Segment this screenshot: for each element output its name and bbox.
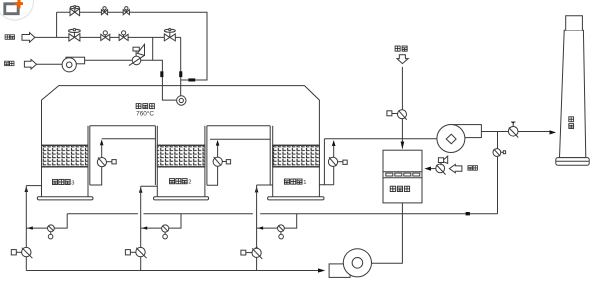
node arrow up tower1 outlet (332, 140, 336, 146)
label 空气 air right (468, 166, 478, 171)
wire stack line (481, 131, 549, 133)
node arrow left B2 (142, 226, 147, 229)
label 蓄热室2 (170, 179, 192, 186)
flange F2 vertical (179, 71, 182, 77)
wire gas drop to burner (180, 37, 182, 96)
ceramic bed tower1 (273, 145, 320, 167)
duct D1 top (90, 125, 156, 127)
label 过滤器 filter (390, 186, 409, 191)
valve V24 motor-operated before burner (164, 29, 175, 41)
wire gas main line 2 (35, 36, 181, 38)
label 废气 waste gas (395, 46, 407, 51)
label 燃气 gas (5, 35, 14, 40)
valve BV3 on branch B3 (278, 225, 285, 239)
wire bottom return line (26, 270, 318, 272)
node arrow up into tower2 (139, 187, 143, 193)
flange FA on manifold (466, 212, 470, 215)
svg-text:2: 2 (188, 180, 191, 186)
wire bypass drop to manifold (497, 132, 499, 214)
node arrow up into tower1 (255, 186, 259, 192)
damper valve DV3 tower1 right (328, 157, 347, 166)
wire riser R2 (140, 186, 142, 270)
node air inlet block arrow right (449, 164, 462, 172)
duct D2 internal header (210, 138, 270, 140)
valve V23 hand valve on line 2 (119, 31, 128, 41)
node waste gas block arrow down (397, 55, 408, 64)
blower B2 main exhaust fan (437, 125, 482, 153)
node arrow left into filter (424, 167, 431, 171)
node arrow up duct D1 (100, 140, 104, 146)
wire riser R1 (25, 186, 27, 271)
label 氧化室 oxidation chamber (136, 104, 154, 109)
ceramic bed tower2 (157, 145, 205, 167)
node arrow right into stack (550, 130, 557, 134)
svg-text:3: 3 (71, 181, 74, 187)
label 蓄热室3 (53, 179, 75, 186)
wire fresh air to filter (431, 168, 436, 170)
base skirt tower1 (268, 197, 324, 200)
svg-text:1: 1 (303, 180, 306, 186)
valve SV2 on bypass drop (493, 149, 506, 157)
valve V13 hand valve on line 1 (123, 7, 129, 15)
control valve WV1 on waste gas drop (387, 110, 407, 120)
filter element band (383, 172, 422, 178)
flange F3 horizontal on burner pilot line (188, 78, 195, 81)
damper valve DV2 in duct D2 (213, 157, 231, 166)
node junction dot R3 (255, 247, 258, 250)
tower3 right wall (87, 126, 89, 197)
tower2 walls (157, 126, 205, 197)
valve SV1 on stack line (508, 122, 518, 138)
valve V22 hand valve on line 2 (101, 31, 110, 41)
damper valve DV1 in duct D1 (97, 157, 116, 166)
screenshot badge overlay (0, 0, 34, 20)
duct D1 internal header (102, 138, 156, 140)
wire branch B1 (26, 214, 67, 228)
wire branch B2 (141, 214, 181, 228)
wire waste gas drop (401, 67, 403, 110)
node junction dot R2 (139, 247, 142, 250)
wire air inlet to blower (37, 63, 63, 65)
wire vertical connector line1-line2 (56, 12, 58, 37)
wire air line blower to burner (85, 60, 177, 100)
burner U1 double circle (177, 96, 186, 105)
base skirt tower3 (37, 197, 93, 200)
wire branch B3 (257, 214, 297, 228)
valve AV1 on fresh air line (436, 156, 448, 175)
svg-text:760°C: 760°C (136, 110, 154, 118)
valve BV1 on branch B1 (48, 225, 55, 239)
node arrow left B1 (28, 226, 33, 229)
valve V11 motor-operated on line 1 (70, 6, 80, 16)
duct D1 walls (90, 126, 156, 185)
blower B1 combustion air fan (62, 57, 85, 72)
ceramic bed tower3 (42, 145, 89, 167)
control valve MV1 on riser R1 (11, 247, 32, 258)
node air inlet block arrow (24, 59, 36, 69)
node arrow down into filter (401, 142, 405, 150)
control valve CV1 on air line (129, 44, 145, 65)
chimney stack (556, 16, 589, 166)
tower1 left wall (272, 126, 274, 197)
valve V21 motor-operated on line 2 (69, 29, 81, 42)
duct D2 walls (207, 126, 270, 185)
wire gas-air tie line (152, 37, 154, 60)
label 空气 air (5, 61, 14, 66)
blower B3 recirculation fan (329, 249, 371, 278)
control valve MV2 on riser R2 (125, 247, 146, 258)
filter box (383, 150, 422, 203)
wire manifold line A (67, 213, 497, 215)
node gas inlet block arrow (22, 33, 35, 43)
wire gas header top line 1 (57, 12, 207, 80)
base skirt tower2 (154, 197, 209, 200)
valve BV2 on branch B2 (162, 225, 169, 239)
wire filter downcomer to fan B3 (372, 203, 403, 263)
oxidation chamber outline (42, 86, 320, 197)
node arrow up duct D2 (216, 140, 220, 146)
wire tower1 bottom pipe (257, 184, 273, 186)
wire exhaust header to fan (324, 138, 437, 140)
wire tower3 bottom pipe (26, 185, 41, 187)
node arrow left B3 (258, 226, 263, 229)
duct D2 top (207, 125, 270, 127)
wire riser R3 (256, 185, 258, 271)
flange F1 vertical (160, 71, 163, 77)
node arrow up into tower3 (25, 186, 29, 192)
wire tower2 bottom pipe (141, 185, 158, 187)
label 烟囱 chimney vertical (569, 117, 574, 129)
label 蓄热室1 (284, 179, 306, 186)
valve V12 hand valve on line 1 (101, 7, 107, 15)
wire tower1 right riser (319, 139, 333, 185)
node arrow right into fan B3 (318, 268, 325, 272)
control valve MV3 on riser R3 (241, 248, 262, 259)
